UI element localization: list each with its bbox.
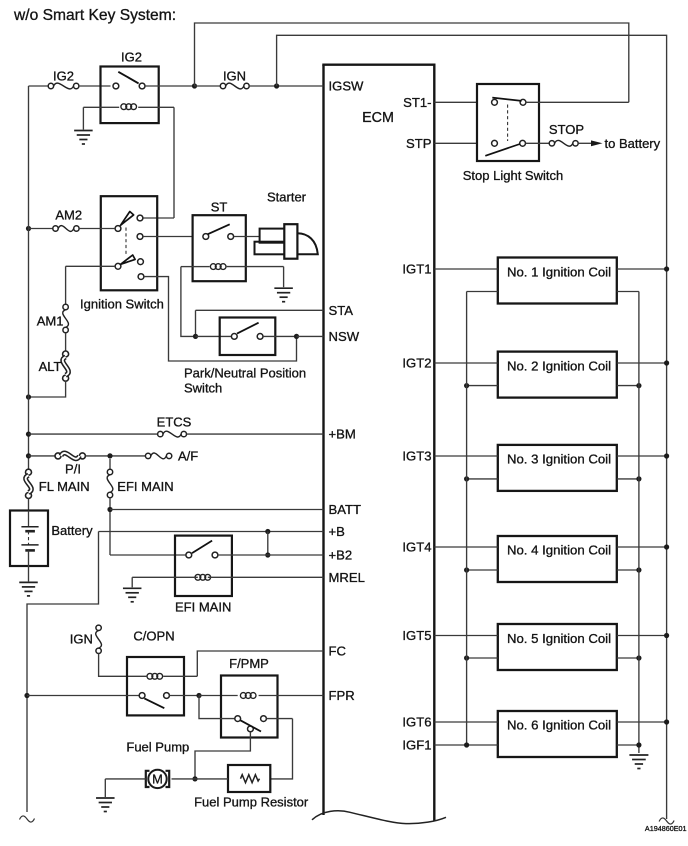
svg-text:IG2: IG2 [121,50,142,65]
svg-text:Ignition Switch: Ignition Switch [80,296,164,311]
svg-text:+B: +B [329,524,346,539]
svg-text:IGT5: IGT5 [402,628,431,643]
svg-text:IGF1: IGF1 [402,738,431,753]
svg-text:STOP: STOP [549,122,584,137]
svg-text:A/F: A/F [178,449,198,464]
svg-text:No. 3 Ignition Coil: No. 3 Ignition Coil [507,452,611,467]
svg-text:C/OPN: C/OPN [133,629,174,644]
svg-text:IGT3: IGT3 [402,449,431,464]
svg-text:ALT: ALT [39,359,62,374]
svg-text:Fuel Pump: Fuel Pump [126,739,189,754]
svg-text:Park/Neutral Position: Park/Neutral Position [184,365,306,380]
svg-text:No. 5 Ignition Coil: No. 5 Ignition Coil [507,631,611,646]
svg-text:FPR: FPR [329,688,355,703]
svg-text:F/PMP: F/PMP [229,656,269,671]
svg-text:+B2: +B2 [329,548,353,563]
svg-text:ETCS: ETCS [157,414,192,429]
svg-text:A194860E01: A194860E01 [645,824,687,833]
svg-text:MREL: MREL [329,570,365,585]
svg-text:IGT1: IGT1 [402,262,431,277]
svg-text:STP: STP [406,136,432,151]
svg-text:EFI MAIN: EFI MAIN [117,479,173,494]
svg-text:+BM: +BM [329,427,356,442]
svg-text:to Battery: to Battery [605,136,661,151]
svg-text:Battery: Battery [51,523,93,538]
svg-text:No. 1 Ignition Coil: No. 1 Ignition Coil [507,265,611,280]
svg-text:w/o Smart Key System:: w/o Smart Key System: [13,7,176,24]
svg-text:EFI MAIN: EFI MAIN [175,600,231,615]
svg-text:No. 4 Ignition Coil: No. 4 Ignition Coil [507,543,611,558]
svg-text:IGT4: IGT4 [402,540,431,555]
svg-text:P/I: P/I [65,462,81,477]
svg-text:FL MAIN: FL MAIN [39,479,90,494]
svg-text:NSW: NSW [329,329,360,344]
svg-text:AM2: AM2 [55,207,82,222]
svg-text:Fuel Pump Resistor: Fuel Pump Resistor [194,795,309,810]
svg-text:ST: ST [211,200,228,215]
svg-text:M: M [152,772,163,787]
svg-text:AM1: AM1 [37,314,64,329]
svg-text:STA: STA [329,303,354,318]
svg-text:FC: FC [329,644,346,659]
svg-text:IGSW: IGSW [329,79,365,94]
svg-text:IGT2: IGT2 [402,356,431,371]
svg-text:Starter: Starter [267,190,307,205]
svg-text:ECM: ECM [362,110,394,126]
svg-text:Stop Light Switch: Stop Light Switch [463,168,563,183]
svg-text:No. 2 Ignition Coil: No. 2 Ignition Coil [507,359,611,374]
svg-text:No. 6 Ignition Coil: No. 6 Ignition Coil [507,718,611,733]
svg-text:IGN: IGN [70,632,93,647]
svg-text:IGN: IGN [223,69,246,84]
svg-text:IGT6: IGT6 [402,715,431,730]
svg-text:IG2: IG2 [53,69,74,84]
svg-text:BATT: BATT [329,502,362,517]
svg-text:ST1-: ST1- [403,95,431,110]
svg-text:Switch: Switch [184,381,222,396]
